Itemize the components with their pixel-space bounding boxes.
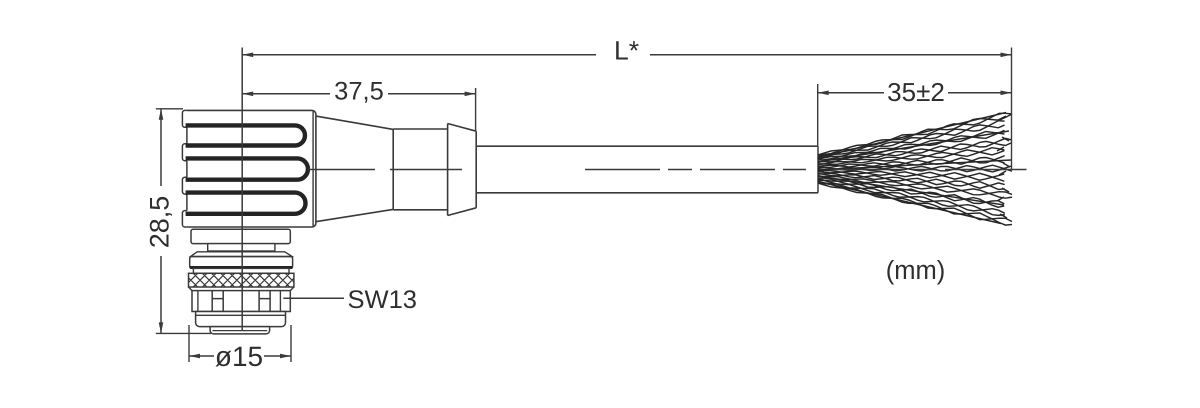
nut silhouette inner lines [198, 291, 281, 312]
extension 28,5 top [156, 108, 183, 110]
dimension 37,5 line [242, 93, 475, 95]
horizontal cable axis centerline [308, 169, 1027, 171]
ferrule cylinder [393, 129, 447, 210]
svg-text:SW13: SW13 [347, 286, 416, 314]
svg-text:35±2: 35±2 [887, 77, 945, 107]
washer ring [193, 268, 289, 273]
grip hairpin bar bottom [186, 193, 306, 214]
extension line 37,5 right [475, 88, 477, 131]
body inner right wall line [312, 112, 314, 227]
dimension L* line [242, 54, 1011, 56]
extension ø15 right [290, 325, 292, 362]
neck step below body [191, 229, 290, 243]
extension line 35±2 left [817, 84, 819, 146]
extension 28,5 bottom [156, 332, 211, 334]
svg-text:L*: L* [614, 35, 639, 65]
bottom tip [210, 327, 270, 334]
transition to hex nut [189, 287, 294, 291]
hex nut SW13 [192, 291, 290, 312]
grip hairpin bar middle [186, 158, 308, 179]
nut slot left [212, 291, 223, 312]
nut slot right [259, 291, 270, 312]
extension line right (braid end) [1011, 48, 1013, 170]
grip hairpin bar top [186, 125, 305, 145]
svg-text:(mm): (mm) [886, 257, 945, 285]
svg-text:ø15: ø15 [215, 341, 263, 372]
connector body (angled M12 housing with grip ribs) [187, 110, 316, 227]
vertical axis centerline through connector [241, 48, 243, 331]
leader line SW13 [283, 297, 344, 299]
dimension 28,5 line [160, 109, 162, 334]
svg-text:37,5: 37,5 [334, 77, 384, 105]
cable jacket end edge [817, 146, 819, 193]
svg-text:28,5: 28,5 [145, 196, 175, 249]
flange trapezoid [191, 252, 292, 257]
dimension 35±2 line [818, 92, 1012, 94]
bottom cap [196, 312, 286, 327]
smooth ring with thick top edge [190, 257, 293, 269]
strain-relief bell [448, 124, 477, 216]
knurl crosshatch [189, 273, 294, 287]
taper cone to cable gland [317, 116, 394, 221]
stem [208, 244, 275, 251]
stripped braid fan mesh [818, 113, 1012, 226]
dimension ø15 line [189, 355, 291, 357]
cable jacket [476, 146, 818, 193]
body left ribs silhouette [182, 110, 187, 227]
knurled ring outline [189, 273, 294, 287]
extension ø15 left [188, 325, 190, 362]
